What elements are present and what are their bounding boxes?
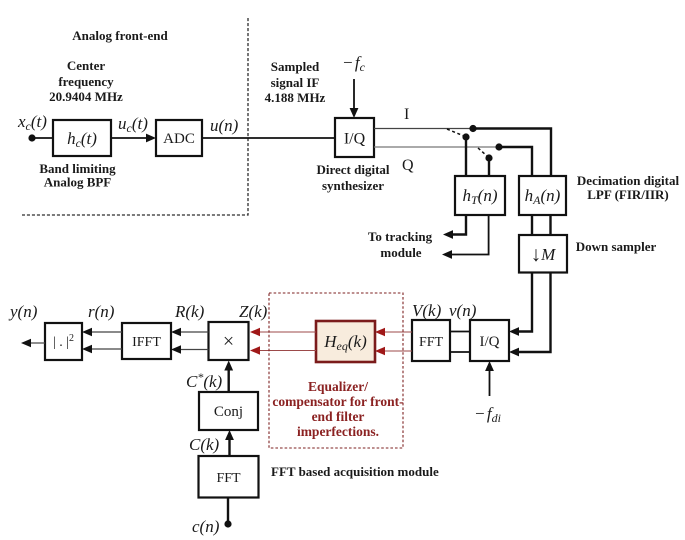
svg-text:frequency: frequency [58, 74, 114, 89]
svg-text:hc(t): hc(t) [67, 129, 97, 150]
svg-text:FFT: FFT [419, 335, 444, 350]
svg-text:imperfections.: imperfections. [297, 424, 379, 439]
svg-text:Conj: Conj [214, 404, 243, 420]
svg-text:I/Q: I/Q [344, 131, 366, 148]
svg-text:− fc: − fc [342, 53, 366, 74]
svg-text:IFFT: IFFT [132, 335, 161, 350]
svg-text:FFT: FFT [216, 471, 241, 486]
svg-text:LPF (FIR/IIR): LPF (FIR/IIR) [587, 187, 669, 202]
svg-text:R(k): R(k) [174, 302, 205, 321]
svg-text:xc(t): xc(t) [17, 112, 47, 133]
svg-text:Q: Q [402, 157, 414, 174]
svg-text:signal IF: signal IF [271, 75, 320, 90]
svg-text:uc(t): uc(t) [118, 114, 148, 135]
svg-text:Down sampler: Down sampler [576, 239, 657, 254]
svg-text:↓M: ↓M [531, 242, 557, 266]
svg-text:Analog BPF: Analog BPF [44, 175, 112, 190]
svg-text:compensator for front-: compensator for front- [272, 394, 403, 409]
svg-text:×: × [223, 331, 234, 353]
svg-text:Center: Center [67, 58, 105, 73]
svg-text:module: module [380, 245, 421, 260]
svg-text:hA(n): hA(n) [525, 186, 561, 207]
svg-text:u(n): u(n) [210, 116, 239, 135]
svg-text:hT(n): hT(n) [462, 186, 497, 207]
svg-text:Analog front-end: Analog front-end [72, 28, 168, 43]
svg-text:4.188 MHz: 4.188 MHz [265, 90, 326, 105]
svg-text:FFT based acquisition module: FFT based acquisition module [271, 464, 439, 479]
svg-text:To tracking: To tracking [368, 229, 433, 244]
svg-text:y(n): y(n) [8, 302, 38, 321]
svg-text:r(n): r(n) [88, 302, 115, 321]
svg-text:I/Q: I/Q [480, 334, 500, 350]
svg-text:C(k): C(k) [189, 435, 220, 454]
svg-text:end filter: end filter [312, 409, 365, 424]
svg-text:− fdi: − fdi [474, 404, 501, 425]
svg-text:I: I [404, 106, 409, 123]
svg-text:synthesizer: synthesizer [322, 178, 384, 193]
svg-text:v(n): v(n) [449, 301, 477, 320]
svg-text:Equalizer/: Equalizer/ [308, 379, 368, 394]
svg-text:c(n): c(n) [192, 517, 220, 536]
svg-text:ADC: ADC [163, 131, 195, 147]
svg-text:Z(k): Z(k) [239, 302, 268, 321]
svg-text:20.9404 MHz: 20.9404 MHz [49, 89, 123, 104]
svg-text:V(k): V(k) [412, 301, 442, 320]
svg-text:C*(k): C*(k) [186, 370, 223, 391]
svg-text:Decimation digital: Decimation digital [577, 173, 680, 188]
svg-text:Sampled: Sampled [271, 59, 320, 74]
svg-text:Direct digital: Direct digital [316, 162, 389, 177]
